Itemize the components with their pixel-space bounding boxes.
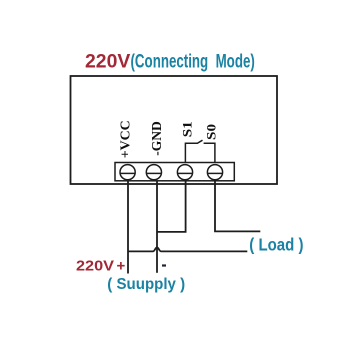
svg-text:+: + — [117, 257, 126, 274]
supply minus sign — [162, 264, 166, 266]
controller box outline — [71, 76, 278, 184]
terminal strip — [115, 163, 234, 181]
svg-text:S1: S1 — [180, 121, 195, 137]
wire from +VCC right to load with hop over GND wire — [128, 247, 247, 251]
svg-text:( Load ): ( Load ) — [249, 235, 303, 255]
wire from -GND down — [156, 181, 158, 273]
terminal 1 screw — [120, 165, 135, 180]
svg-text:220V: 220V — [85, 51, 130, 73]
svg-text:(Connecting Mode): (Connecting Mode) — [131, 51, 255, 73]
terminal 3 screw — [177, 165, 192, 180]
terminal 2 screw — [146, 165, 161, 180]
wire from S1 down and left to GND wire — [157, 181, 186, 232]
svg-text:-GND: -GND — [150, 121, 165, 156]
svg-text:220V: 220V — [76, 257, 114, 274]
svg-text:( Suupply ): ( Suupply ) — [107, 276, 185, 293]
svg-text:S0: S0 — [204, 124, 219, 140]
wire from +VCC down — [127, 181, 129, 274]
svg-text:+VCC: +VCC — [119, 120, 134, 158]
terminal 4 screw — [207, 165, 222, 180]
wire from S0 down and right to load — [215, 181, 260, 232]
switch between S1 and S0 — [185, 140, 215, 162]
